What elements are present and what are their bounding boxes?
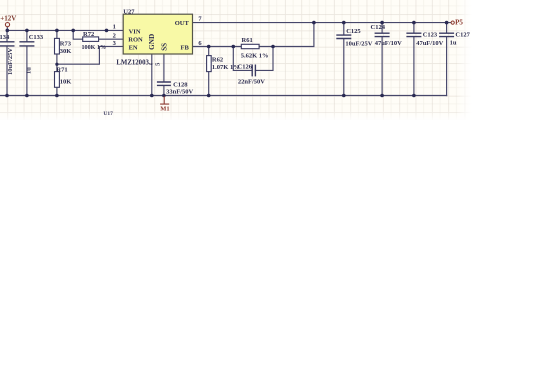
capacitor C134 plates: [0, 42, 15, 46]
resistor bodies: [55, 37, 260, 87]
svg-text:33nF/50V: 33nF/50V: [166, 89, 193, 96]
svg-text:1.07K 1%: 1.07K 1%: [212, 64, 240, 71]
node C125 top: [342, 21, 346, 25]
wire C133 leads: [26, 30, 28, 95]
svg-text:47uF/10V: 47uF/10V: [375, 40, 402, 47]
wire R72 branch: [73, 30, 123, 39]
svg-text:30K: 30K: [60, 48, 72, 55]
svg-text:10uF/25V: 10uF/25V: [7, 48, 14, 75]
node R71 bottom: [55, 94, 59, 98]
wire OUT net: [193, 22, 451, 24]
capacitor C125 plates: [336, 35, 351, 38]
svg-text:M1: M1: [160, 106, 169, 113]
svg-text:100K 1%: 100K 1%: [82, 45, 107, 51]
resistor R72 body: [83, 37, 99, 42]
node R73 top: [55, 29, 59, 33]
node C128 bottom: [162, 94, 166, 98]
capacitor C126 plates: [252, 65, 255, 77]
svg-text:GND: GND: [148, 34, 156, 50]
net marker M1: [160, 96, 170, 112]
svg-text:R72: R72: [83, 31, 94, 38]
svg-text:2: 2: [113, 33, 116, 40]
svg-text:FB: FB: [181, 44, 190, 51]
svg-text:C125: C125: [346, 28, 361, 35]
node OUT sense: [312, 21, 316, 25]
capacitor C128 plates: [157, 82, 171, 85]
svg-text:LMZ12003xz: LMZ12003xz: [116, 59, 152, 66]
schematic sheet background: [0, 0, 472, 122]
junction dots: [5, 21, 448, 97]
wire FB net: [193, 23, 314, 47]
wire GND pin: [151, 54, 153, 96]
node +12V/C134: [6, 29, 10, 33]
svg-text:C134: C134: [0, 34, 10, 41]
wire +12V rail: [7, 27, 123, 31]
resistor R71 body: [55, 72, 60, 88]
svg-text:22nF/50V: 22nF/50V: [238, 79, 265, 86]
wires layer: [0, 23, 451, 96]
svg-text:47uF/10V: 47uF/10V: [416, 40, 443, 47]
wire R71 leads: [56, 64, 58, 95]
svg-text:R62: R62: [212, 56, 223, 63]
node R61 left: [232, 45, 236, 49]
node EN divider: [55, 63, 58, 66]
svg-text:1u: 1u: [450, 40, 457, 47]
node R61 right: [271, 45, 275, 49]
wire C134 leads: [6, 30, 8, 95]
wire C123 leads: [413, 23, 415, 96]
svg-text:U27: U27: [123, 8, 135, 15]
node C134 bottom: [5, 94, 9, 98]
svg-text:U17: U17: [103, 111, 113, 117]
wire EN net: [57, 46, 123, 64]
capacitor plates layer: [0, 33, 454, 85]
svg-text:1u: 1u: [25, 67, 32, 74]
capacitor C124 plates: [375, 33, 390, 36]
node C133 top: [25, 29, 29, 33]
port P5: [451, 19, 463, 27]
wire C126 loop: [233, 47, 273, 71]
svg-text:RON: RON: [128, 36, 143, 43]
svg-text:10uF/25V: 10uF/25V: [345, 40, 372, 47]
node R72 top: [71, 29, 75, 33]
wire R73 leads: [56, 30, 58, 64]
node FB/R62: [207, 45, 211, 49]
node GND pin bottom: [150, 94, 154, 98]
node C124 top: [380, 21, 384, 25]
svg-text:EN: EN: [129, 44, 138, 51]
node C133 bottom: [25, 94, 29, 98]
svg-text:SS: SS: [160, 43, 168, 51]
svg-text:10K: 10K: [60, 78, 72, 85]
svg-text:P5: P5: [455, 19, 463, 27]
svg-text:OUT: OUT: [175, 20, 190, 27]
node C124 bottom: [380, 94, 384, 98]
wire C124 leads: [381, 23, 383, 96]
node C123 bottom: [412, 94, 416, 98]
svg-text:+12V: +12V: [0, 14, 16, 22]
svg-text:R61: R61: [242, 37, 253, 44]
wire ground rail: [0, 95, 447, 97]
svg-text:C127: C127: [455, 32, 470, 39]
wire C127 leads: [446, 23, 448, 96]
op-amp U27 IC body: [123, 14, 192, 54]
svg-text:C123: C123: [423, 31, 438, 38]
node C125 bottom: [342, 94, 346, 98]
power symbol +12V: [0, 14, 16, 26]
svg-text:5.62K 1%: 5.62K 1%: [241, 52, 269, 59]
svg-text:C124: C124: [371, 24, 386, 31]
svg-text:R73: R73: [60, 40, 72, 47]
resistor R61 body: [241, 44, 259, 48]
resistor R73 body: [55, 38, 60, 54]
svg-text:C133: C133: [29, 34, 44, 41]
wire C125 leads: [343, 23, 345, 96]
resistor R62 body: [207, 56, 212, 72]
svg-text:R71: R71: [56, 66, 67, 73]
node C127 top: [445, 21, 449, 25]
wire R62 leads: [208, 47, 210, 96]
capacitor C133 plates: [19, 42, 34, 46]
svg-text:C128: C128: [173, 81, 188, 88]
node C123 top: [412, 21, 416, 25]
node R62 bottom: [207, 94, 211, 98]
svg-text:C126: C126: [238, 64, 253, 71]
capacitor C127 plates: [439, 33, 454, 36]
wire SS pin / C128 leads: [163, 54, 165, 96]
svg-text:1: 1: [113, 24, 116, 31]
node VIN: [105, 29, 109, 33]
svg-text:VIN: VIN: [129, 28, 141, 35]
capacitor C123 plates: [406, 33, 421, 36]
